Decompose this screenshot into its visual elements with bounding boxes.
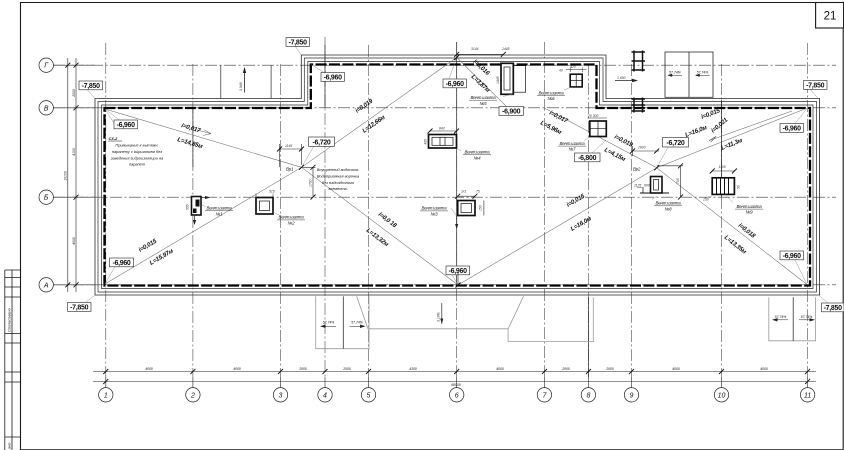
vent shaft №2 bbox=[256, 190, 305, 226]
slope line corner Г/1 to drain Вр1 bbox=[105, 58, 807, 286]
svg-text:1125: 1125 bbox=[634, 184, 641, 188]
svg-text:21: 21 bbox=[824, 11, 837, 23]
dim right of Вр1 bbox=[312, 167, 314, 197]
svg-text:Вр1: Вр1 bbox=[286, 167, 294, 172]
svg-text:без надсадочного: без надсадочного bbox=[322, 180, 355, 185]
canopy slope labels 57,74% left bbox=[323, 315, 813, 325]
svg-text:1100: 1100 bbox=[719, 165, 726, 169]
svg-text:-7,850: -7,850 bbox=[806, 83, 824, 90]
slope direction arrow line right bbox=[709, 111, 792, 142]
elevation box -6,960 bottom-right bbox=[780, 251, 804, 260]
grid circles letters bbox=[39, 58, 53, 72]
svg-text:3: 3 bbox=[279, 392, 283, 399]
slope line corner А/11 to Вр2 bbox=[657, 168, 807, 285]
dimension ticks bottom row 2 bbox=[103, 379, 108, 384]
up arrow in top-left zone bbox=[239, 67, 246, 93]
svg-text:11: 11 bbox=[804, 392, 811, 399]
dimension ticks bottom row 1 bbox=[103, 369, 810, 384]
svg-text:-6,960: -6,960 bbox=[324, 75, 342, 82]
elevation box -6,720 Вр1 bbox=[309, 137, 335, 146]
svg-text:75: 75 bbox=[476, 189, 480, 193]
svg-text:6: 6 bbox=[455, 392, 459, 399]
svg-text:-6,960: -6,960 bbox=[783, 253, 801, 260]
parapet middle thin line bbox=[98, 58, 817, 292]
svg-text:57,74%: 57,74% bbox=[669, 71, 681, 75]
svg-text:Вент.шахта: Вент.шахта bbox=[207, 206, 233, 211]
slope line bottom drain to Вр2 bbox=[458, 168, 657, 285]
svg-text:№7: №7 bbox=[569, 147, 577, 152]
svg-text:СХ-2: СХ-2 bbox=[109, 136, 119, 141]
canopy right piece bbox=[769, 297, 816, 341]
svg-text:Вент.шахта: Вент.шахта bbox=[465, 150, 491, 155]
bottom dimension line row 2 (total) bbox=[93, 381, 816, 383]
drain funnel Вр2 bbox=[630, 145, 683, 199]
grid column 7 bbox=[543, 42, 545, 377]
svg-text:150: 150 bbox=[479, 205, 483, 211]
svg-text:№8: №8 bbox=[665, 206, 673, 211]
svg-text:1х1: 1х1 bbox=[461, 189, 467, 193]
svg-text:10: 10 bbox=[718, 392, 726, 399]
svg-text:Вент.шахта: Вент.шахта bbox=[539, 90, 565, 95]
svg-text:А: А bbox=[43, 282, 49, 289]
left dimension texts bbox=[64, 89, 76, 245]
svg-text:В: В bbox=[44, 105, 49, 112]
svg-text:2000: 2000 bbox=[561, 367, 570, 371]
ladder upper (on step parapet) bbox=[632, 51, 646, 72]
grid column 4 bbox=[324, 37, 326, 377]
grid circle 1 bbox=[39, 58, 815, 402]
svg-text:Вент.шахта: Вент.шахта bbox=[471, 95, 497, 100]
svg-text:-6,960: -6,960 bbox=[446, 81, 464, 88]
svg-text:№6: №6 bbox=[548, 96, 556, 101]
svg-text:Вент.шахта: Вент.шахта bbox=[560, 141, 586, 146]
svg-text:Вр2: Вр2 bbox=[633, 167, 641, 172]
arrow 1,690 bbox=[615, 76, 638, 82]
elevation box -6,960 step bbox=[321, 73, 345, 82]
grid column 9 bbox=[631, 64, 633, 377]
row stub lines from circles to plan bbox=[53, 65, 95, 285]
svg-text:-6,800: -6,800 bbox=[578, 155, 596, 162]
note block СХ-2 bbox=[109, 136, 165, 167]
roof wall thick dashed line bbox=[105, 65, 811, 286]
svg-text:4000: 4000 bbox=[72, 237, 76, 245]
grid row В bbox=[53, 107, 836, 109]
svg-text:-6,960: -6,960 bbox=[112, 260, 130, 267]
elevation box -6,960 bottom-drain bbox=[446, 266, 470, 275]
svg-text:420: 420 bbox=[424, 139, 428, 145]
grid circle numbers bbox=[43, 63, 811, 400]
svg-text:-6,960: -6,960 bbox=[117, 122, 135, 129]
svg-text:2000: 2000 bbox=[342, 367, 351, 371]
svg-text:Вент.шахта: Вент.шахта bbox=[656, 201, 682, 206]
slope line Вр1 to top drain bbox=[302, 58, 457, 168]
svg-text:Б: Б bbox=[44, 195, 49, 202]
slope line corner В/11 to Вр2 bbox=[657, 108, 807, 168]
elevation box -7,850 top-right bbox=[804, 81, 828, 90]
elevation box -6,900 bbox=[499, 107, 524, 116]
svg-text:2000: 2000 bbox=[605, 367, 614, 371]
svg-text:4000: 4000 bbox=[145, 367, 153, 371]
elevation box -6,960 top-right bbox=[780, 124, 804, 133]
dim above Вр2 bbox=[633, 150, 660, 152]
svg-text:57,74%: 57,74% bbox=[697, 71, 709, 75]
grid column 11 bbox=[807, 43, 809, 377]
svg-text:4000: 4000 bbox=[233, 367, 241, 371]
svg-text:№4: №4 bbox=[474, 155, 482, 160]
svg-text:9: 9 bbox=[630, 392, 634, 399]
svg-text:Вент.шахта: Вент.шахта bbox=[422, 206, 448, 211]
svg-text:-6,960: -6,960 bbox=[783, 126, 801, 133]
svg-text:555: 555 bbox=[186, 204, 190, 210]
svg-text:57,74%: 57,74% bbox=[801, 315, 813, 319]
svg-text:1603: 1603 bbox=[638, 145, 646, 149]
roof hatch rectangles top bbox=[665, 52, 713, 97]
ladder lower (on main parapet) bbox=[632, 98, 646, 113]
grid column 10 bbox=[721, 64, 723, 377]
svg-text:3.18%: 3.18% bbox=[437, 312, 441, 322]
grid column 1 bbox=[105, 43, 107, 377]
svg-text:20 300: 20 300 bbox=[587, 114, 598, 118]
dim right of Вр2 bbox=[680, 166, 682, 197]
svg-text:2000: 2000 bbox=[298, 367, 307, 371]
vent shaft №3 bbox=[420, 189, 484, 229]
svg-text:50: 50 bbox=[737, 185, 741, 189]
slope line corner А/1 to drain Вр1 bbox=[105, 167, 302, 284]
note block internal drain bbox=[317, 167, 360, 191]
svg-text:-6,720: -6,720 bbox=[666, 140, 684, 147]
grid column 3 bbox=[280, 64, 282, 377]
elevation box -7,850 bottom-right bbox=[822, 303, 844, 312]
canopy slope down-arrow 21% bbox=[437, 303, 444, 324]
svg-text:705: 705 bbox=[676, 178, 680, 184]
left dimension line 2 bbox=[75, 58, 77, 292]
dimension ticks left bbox=[65, 63, 78, 288]
top-left parapet zone verticals bbox=[221, 65, 271, 98]
top drain marker bbox=[454, 47, 509, 60]
slope direction arrow under i=0,017 left bbox=[197, 130, 211, 135]
svg-text:1,690: 1,690 bbox=[617, 76, 626, 80]
svg-text:Вент.шахта: Вент.шахта bbox=[737, 204, 763, 209]
drain funnel Вр1 bbox=[277, 144, 316, 200]
vent shaft №1 bbox=[186, 196, 234, 225]
svg-text:Вент.шахта: Вент.шахта bbox=[279, 215, 305, 220]
elevation box -6,720 Вр2 bbox=[663, 138, 689, 148]
parapet inner thin line bbox=[102, 62, 814, 289]
svg-text:-6,900: -6,900 bbox=[502, 109, 520, 116]
elevation box -6,800 bbox=[575, 153, 601, 162]
svg-text:-7,850: -7,850 bbox=[824, 305, 842, 312]
svg-text:№1: №1 bbox=[216, 211, 224, 216]
elevation box -6,960 top-drain bbox=[443, 79, 467, 88]
svg-text:2000: 2000 bbox=[72, 89, 76, 98]
vent shaft №9 bbox=[703, 165, 763, 215]
svg-text:600: 600 bbox=[644, 184, 650, 188]
svg-text:4000: 4000 bbox=[496, 367, 504, 371]
svg-text:4000: 4000 bbox=[760, 367, 768, 371]
svg-text:№9: №9 bbox=[746, 210, 754, 215]
vent shaft №6 bbox=[537, 65, 587, 101]
canopy outline left piece bbox=[316, 296, 816, 348]
svg-text:40: 40 bbox=[559, 69, 563, 73]
grid row А bbox=[53, 284, 836, 286]
svg-text:10100: 10100 bbox=[64, 171, 68, 181]
svg-text:1445: 1445 bbox=[496, 76, 500, 84]
svg-text:Внутренний водосток.: Внутренний водосток. bbox=[317, 167, 360, 172]
slope line В/7 to Вр2 bbox=[544, 108, 656, 168]
vent shaft №5 bbox=[469, 63, 526, 106]
grid column 5 bbox=[368, 45, 370, 377]
svg-text:-7,850: -7,850 bbox=[289, 40, 307, 47]
svg-text:843: 843 bbox=[439, 126, 445, 130]
svg-text:8: 8 bbox=[586, 392, 590, 399]
canopy inner dividers bbox=[343, 296, 793, 348]
vent shaft №4 bbox=[424, 126, 492, 160]
vent shaft №7 bbox=[558, 114, 607, 152]
canopy trapezoid bbox=[357, 296, 524, 329]
svg-text:заведения гидроизоляции на: заведения гидроизоляции на bbox=[110, 155, 164, 160]
bottom dimension line row 1 bbox=[93, 372, 816, 382]
canopy lower step piece bbox=[508, 298, 593, 342]
svg-text:Согласовано: Согласовано bbox=[7, 307, 12, 332]
svg-text:парапету с būршанием без: парапету с būршанием без bbox=[112, 149, 162, 154]
svg-text:-7,850: -7,850 bbox=[70, 305, 88, 312]
svg-text:№2: №2 bbox=[288, 221, 296, 226]
elevation box -7,850 top-step bbox=[286, 38, 310, 47]
slope line Вр1 to bottom drain bbox=[302, 167, 459, 285]
svg-text:парапет: парапет bbox=[129, 162, 146, 167]
svg-text:-7,850: -7,850 bbox=[82, 83, 100, 90]
svg-text:1: 1 bbox=[104, 392, 108, 399]
left dimension line 1 bbox=[68, 58, 76, 292]
svg-text:3.948: 3.948 bbox=[239, 82, 243, 91]
svg-text:57,74%: 57,74% bbox=[775, 315, 787, 319]
leader lines for elevation boxes bbox=[86, 46, 828, 303]
parapet outer thin line bbox=[95, 55, 820, 295]
svg-text:420: 420 bbox=[570, 65, 576, 69]
svg-text:4: 4 bbox=[323, 392, 327, 399]
elevation box -6,960 bottom-left bbox=[110, 258, 134, 267]
dim line at top drain bbox=[457, 53, 504, 55]
hatch labels bbox=[669, 71, 708, 75]
svg-text:4300: 4300 bbox=[409, 367, 417, 371]
svg-text:элемента.: элемента. bbox=[328, 186, 348, 191]
svg-text:Водоприемная воронка: Водоприемная воронка bbox=[317, 173, 360, 178]
svg-text:4000: 4000 bbox=[672, 367, 680, 371]
svg-text:4100: 4100 bbox=[72, 148, 76, 156]
elevation box -7,850 bottom-left bbox=[68, 303, 92, 312]
svg-text:ано: ано bbox=[7, 442, 12, 449]
svg-text:5: 5 bbox=[367, 392, 371, 399]
sheet number box 21 bbox=[816, 3, 844, 29]
svg-text:№3: №3 bbox=[431, 212, 439, 217]
elevation box -6,960 top-left bbox=[114, 120, 138, 129]
bottom drain marker bbox=[456, 272, 461, 288]
svg-text:№5: №5 bbox=[480, 101, 488, 106]
svg-text:68000: 68000 bbox=[451, 383, 461, 387]
grid row Г bbox=[53, 37, 836, 377]
svg-text:2: 2 bbox=[190, 392, 195, 399]
elevation box -7,850 top-left bbox=[68, 38, 844, 313]
slope line top drain down-right bbox=[457, 58, 510, 111]
vent shaft №8 bbox=[634, 177, 682, 212]
svg-text:1445: 1445 bbox=[502, 47, 510, 51]
svg-text:Примыкание к вытяжн.: Примыкание к вытяжн. bbox=[115, 143, 158, 148]
svg-text:1700: 1700 bbox=[309, 179, 313, 187]
grid column 2 bbox=[192, 64, 194, 377]
grid row Б bbox=[53, 196, 836, 198]
svg-text:150: 150 bbox=[703, 198, 709, 202]
column circle stems bbox=[106, 377, 808, 388]
svg-text:57,74%: 57,74% bbox=[351, 321, 363, 325]
svg-text:-6,720: -6,720 bbox=[312, 139, 330, 146]
solid axis segments (extension lines) bbox=[193, 42, 722, 377]
svg-text:515: 515 bbox=[269, 190, 275, 194]
svg-text:3144: 3144 bbox=[471, 47, 479, 51]
svg-text:1145: 1145 bbox=[285, 144, 292, 148]
grid column 8 bbox=[587, 64, 589, 377]
svg-text:57,74%: 57,74% bbox=[323, 321, 335, 325]
grid column 6 bbox=[456, 42, 458, 377]
title strip (left stamp column) bbox=[5, 270, 21, 450]
dim above Вр1 bbox=[280, 148, 303, 150]
bottom dimension texts bbox=[145, 367, 768, 387]
